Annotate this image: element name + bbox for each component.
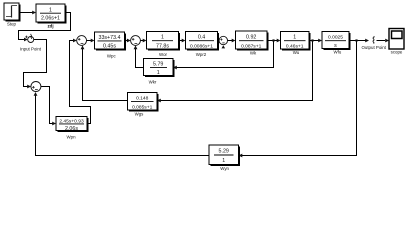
wire sum5 output to Wk [228, 40, 233, 42]
sum junction S4 [131, 36, 141, 46]
svg-text:2.06s+1: 2.06s+1 [41, 16, 60, 22]
block Wpr2 0.4/0.0086s+1 [186, 32, 220, 57]
arrowhead into TF1 [32, 11, 36, 15]
arrowhead into Wkr right side [173, 66, 177, 70]
wire Wfu output toward output point [349, 40, 366, 42]
wire sum2 output to PI block [41, 87, 53, 124]
arrowhead into sum3 bottom [81, 45, 85, 49]
block Wk 0.92/0.087s+1 [236, 31, 269, 56]
arrowhead into sum5 [215, 39, 219, 43]
wire sum4 output to Wor [140, 40, 143, 42]
arrowhead mid output point [365, 39, 369, 43]
svg-text:0.46s+1: 0.46s+1 [286, 43, 304, 49]
arrowhead into PI block [52, 122, 56, 126]
arrowhead into Wgs right side [157, 99, 161, 103]
arrowhead into sum4 [127, 39, 131, 43]
svg-text:Input Point: Input Point [20, 47, 42, 52]
svg-text:1: 1 [157, 70, 160, 76]
arrowhead into sum2 left [27, 85, 31, 89]
wire Wk output to Wu with junction [267, 40, 278, 42]
block Wpc PI controller 33s+73.4/0.45s [95, 32, 127, 59]
svg-text:zdj: zdj [47, 24, 53, 29]
junction dot after Wu [311, 39, 313, 41]
svg-text:0.45s: 0.45s [103, 44, 116, 50]
block Wpn 2.45s+0.93/2.06s outer PI [56, 117, 89, 140]
block Wor 1/77.8s [147, 32, 181, 57]
block Step source [4, 3, 21, 27]
output point marker [361, 36, 386, 50]
arrowhead into Wpc [91, 39, 95, 43]
wire TF1 output to sum Input Point [19, 13, 71, 40]
wire Wu output to Wfu with junction [309, 40, 319, 42]
sum junction S3 [77, 36, 87, 46]
transfer function block 1/(2.06s+1) [36, 4, 67, 29]
svg-text:5.79: 5.79 [153, 62, 163, 68]
block Wkr 5.79/1 rate feedback [144, 59, 175, 85]
arrowhead into Wu [277, 39, 281, 43]
wire PI block output to sum3 left input [70, 41, 91, 124]
wire junction after Wu down to Wgs input [161, 41, 313, 101]
svg-text:Wgs: Wgs [135, 112, 145, 117]
svg-text:0.085s+1: 0.085s+1 [132, 104, 153, 110]
block Wgs 0.148/0.085s+1 feedback [128, 93, 159, 117]
arrowhead into sum3 left [73, 39, 77, 43]
block Wu 1/0.46s+1 [281, 32, 311, 55]
block Wyn 5.29/1 main feedback [209, 145, 240, 171]
arrowhead into sum2 bottom [34, 92, 38, 96]
svg-text:Wpn: Wpn [66, 135, 76, 140]
svg-text:Wkr: Wkr [149, 80, 157, 85]
wire sum1 output to sum2 [24, 40, 47, 87]
svg-text:1: 1 [161, 35, 164, 41]
arrowhead into Wyn right side [239, 154, 243, 158]
junction dot after Wk [272, 39, 274, 41]
arrowhead into Wfu [318, 39, 322, 43]
wire Wkr output up to sum4 bottom input [136, 49, 144, 68]
svg-text:s: s [334, 43, 337, 49]
wire Wpr2 output to sum5 [216, 40, 218, 42]
wire junction after Wfu down to Wyn block input [242, 41, 357, 156]
svg-text:1: 1 [222, 158, 225, 164]
sum junction S2 [31, 82, 41, 92]
arrowhead floating sum5 bottom port [222, 45, 226, 48]
svg-text:0.92: 0.92 [246, 35, 256, 41]
wire output point to scope [377, 40, 386, 42]
arrowhead into scope [385, 39, 389, 43]
svg-text:scope: scope [391, 49, 403, 54]
svg-text:0.0025: 0.0025 [328, 35, 343, 41]
svg-text:0.148: 0.148 [136, 96, 149, 102]
svg-text:0.0086s+1: 0.0086s+1 [190, 43, 213, 49]
arrowhead into sum4 bottom [134, 45, 138, 49]
svg-text:Wor: Wor [159, 52, 168, 57]
arrowhead into Wk [232, 39, 236, 43]
wire sum3 output to Wpc [87, 40, 92, 42]
svg-text:2.06s: 2.06s [65, 126, 78, 132]
svg-text:77.8s: 77.8s [156, 43, 169, 49]
wire Step to TF1 [19, 12, 33, 14]
junction dot after Wfu [355, 39, 357, 41]
block Wfu 0.0025/s integrator [322, 32, 351, 55]
svg-text:Output Point: Output Point [361, 45, 386, 50]
arrowhead into Wpr2 [182, 39, 186, 43]
wire junction after Wk down to Wkr block input [177, 41, 274, 68]
svg-text:Step: Step [7, 22, 17, 27]
svg-text:Wu: Wu [293, 50, 300, 55]
svg-text:33s+73.4: 33s+73.4 [99, 35, 121, 41]
svg-text:Wfu: Wfu [333, 49, 341, 54]
wire Wor output to Wpr2 [179, 40, 183, 42]
arrowhead into sum1 [24, 38, 28, 42]
svg-text:Wpc: Wpc [107, 54, 117, 59]
wire Wyn output left and up to sum2 bottom input [36, 96, 210, 156]
arrowhead into Wor [143, 39, 147, 43]
svg-text:0.087s+1: 0.087s+1 [241, 43, 262, 49]
svg-text:1: 1 [49, 8, 52, 14]
svg-text:Wyn: Wyn [220, 166, 229, 171]
wire Wgs output up to sum3 bottom input [83, 49, 128, 101]
svg-text:Wk: Wk [250, 51, 257, 56]
sum junction S5 [219, 36, 227, 44]
wire Wpc output to sum4 [125, 40, 128, 42]
svg-text:Wpr2: Wpr2 [196, 52, 207, 57]
sum junction S1 Input Point [20, 34, 42, 52]
scope block [389, 29, 404, 55]
svg-text:0.4: 0.4 [198, 35, 205, 41]
svg-text:5.29: 5.29 [219, 149, 229, 155]
svg-text:1: 1 [293, 35, 296, 41]
